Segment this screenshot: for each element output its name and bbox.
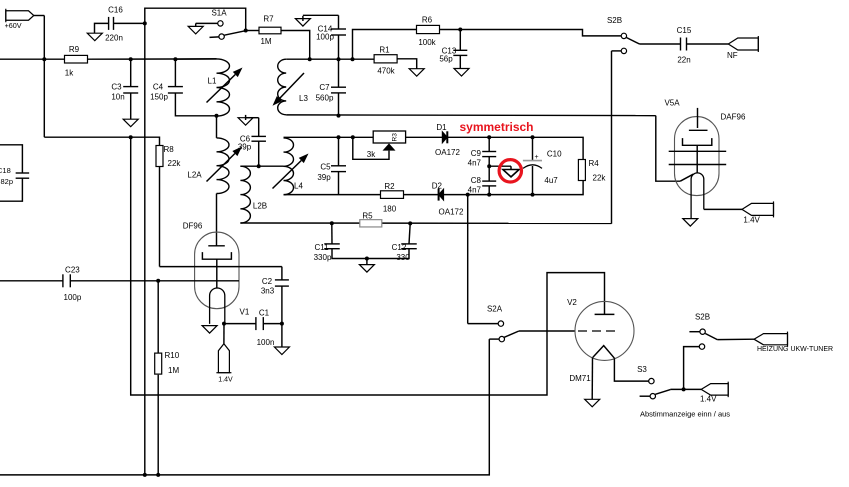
svg-text:C4: C4	[153, 83, 164, 92]
ground at S1A	[188, 26, 203, 34]
wire bottom rail	[0, 339, 489, 475]
node S1A R7 junction	[244, 29, 248, 33]
wire L3 bottom rail	[286, 114, 656, 117]
wire V5A filament to tag	[704, 208, 742, 210]
tag 1.4V at S3	[701, 384, 728, 396]
wire R10 to bottom rail	[157, 375, 159, 475]
inductor L1	[217, 59, 230, 116]
node C3 top	[129, 57, 133, 61]
svg-text:L1: L1	[208, 77, 217, 86]
node C6 tap junction	[257, 164, 261, 168]
svg-text:C5: C5	[320, 163, 331, 172]
svg-text:R4: R4	[589, 159, 600, 168]
wire L3 top to node	[286, 58, 310, 60]
wiper arrow of R3	[383, 143, 396, 150]
capacitor C9	[482, 151, 496, 153]
ground below C11 C12	[359, 265, 374, 273]
svg-text:V2: V2	[567, 298, 577, 307]
svg-text:56p: 56p	[439, 55, 453, 64]
svg-text:C2: C2	[262, 277, 273, 286]
wire C10 bottom stem	[532, 166, 534, 195]
node D2 S2A junction	[466, 193, 470, 197]
wire S2B upper stub	[689, 331, 700, 333]
wire C11 bottom stem	[332, 249, 367, 259]
node C7 bottom	[337, 114, 341, 118]
potentiometer R3 3k	[373, 131, 405, 143]
capacitor C5	[331, 165, 346, 167]
inductor L4	[284, 138, 294, 195]
capacitor C15	[680, 38, 682, 51]
node C11 junction	[330, 221, 334, 225]
wire symmetric rail to V5A diode	[656, 116, 680, 182]
wire C2 bottom stem	[281, 286, 283, 324]
resistor R7	[259, 27, 281, 34]
ground below C13	[454, 69, 469, 77]
tube V1 DF96 envelope	[195, 232, 239, 309]
diode D2 OA172	[439, 189, 444, 200]
wire C8 top stem	[488, 166, 490, 181]
svg-text:3n3: 3n3	[261, 287, 275, 296]
wire bus to V2 anode	[131, 137, 605, 395]
node bus junction at R8 feed	[129, 135, 133, 139]
wire D1 to C9 node	[447, 136, 489, 138]
wire C23 to grid of V1	[70, 280, 239, 282]
wire L4 top rail	[284, 136, 374, 138]
node C13 junction	[458, 28, 462, 32]
svg-text:39p: 39p	[317, 173, 331, 182]
svg-text:3k: 3k	[367, 150, 376, 159]
svg-text:R9: R9	[69, 45, 80, 54]
svg-text:C1: C1	[259, 309, 270, 318]
center lead of V1	[216, 259, 218, 288]
wire C6 bottom stem	[258, 141, 260, 166]
red annotation circle	[499, 160, 521, 182]
svg-text:22n: 22n	[677, 56, 690, 65]
wire S2B lever to C15	[640, 43, 681, 45]
svg-text:R6: R6	[422, 16, 433, 25]
grid dashed of V2	[578, 330, 616, 332]
ground below C3	[123, 119, 138, 127]
wire C7 bottom stem	[338, 93, 340, 116]
svg-text:HEIZUNG UKW-TUNER: HEIZUNG UKW-TUNER	[757, 346, 833, 353]
wire C9 bottom stem	[488, 157, 490, 167]
wire R1 right to ground	[397, 59, 417, 69]
inductor L2B	[240, 166, 250, 223]
svg-text:1k: 1k	[65, 69, 74, 78]
symmetric test point symbol	[503, 170, 519, 177]
inductor L3	[278, 59, 287, 115]
anode wire through V1	[160, 266, 282, 268]
svg-text:C12: C12	[392, 243, 407, 252]
svg-text:22k: 22k	[593, 174, 607, 183]
wire S2A lever to V2 grid	[519, 330, 575, 332]
wire C4 node to L1 top	[175, 58, 216, 60]
wire C5 top stem	[338, 137, 340, 166]
svg-text:C8: C8	[471, 176, 482, 185]
wire R8 to anode line	[159, 167, 161, 267]
capacitor C13	[453, 49, 467, 51]
svg-text:DM71: DM71	[569, 374, 591, 383]
svg-text:+60V: +60V	[5, 21, 22, 30]
tag NF	[728, 38, 758, 50]
capacitor C14	[331, 28, 346, 30]
svg-text:V5A: V5A	[664, 99, 680, 108]
wire S2A feed drop	[467, 195, 469, 324]
wire L1 bottom to L2A top	[216, 116, 218, 138]
wire C3 bottom stem	[130, 93, 132, 119]
wire R10 line	[157, 281, 159, 353]
wire R6 drop	[353, 30, 417, 60]
svg-text:C10: C10	[547, 150, 562, 159]
svg-text:4n7: 4n7	[468, 159, 482, 168]
svg-text:10n: 10n	[111, 93, 124, 102]
capacitor C10 electrolytic	[523, 160, 542, 162]
svg-text:22k: 22k	[168, 159, 182, 168]
svg-text:39p: 39p	[238, 143, 252, 152]
wire R3 to D1	[406, 136, 443, 138]
wire R8 feed	[44, 137, 159, 145]
grid line 2 of V5A	[669, 164, 727, 166]
wire left edge to C23	[0, 280, 63, 282]
wire +60V tag to rail	[34, 15, 44, 17]
svg-text:150p: 150p	[150, 93, 168, 102]
resistor R6	[417, 25, 440, 33]
center lead of V5A	[696, 145, 698, 173]
resistor R5	[360, 220, 382, 227]
svg-text:NF: NF	[727, 51, 738, 60]
node symmetric test point	[487, 164, 491, 168]
ground to C6	[238, 118, 253, 126]
filament of V1	[210, 288, 225, 324]
arrow of variable L3	[279, 73, 304, 99]
svg-text:C3: C3	[111, 83, 122, 92]
wire C9 top stem	[488, 137, 490, 151]
tag 1.4V at V1	[218, 344, 229, 373]
svg-text:C11: C11	[314, 243, 329, 252]
tube V5A DAF96 envelope	[675, 117, 720, 196]
svg-text:C16: C16	[108, 6, 123, 15]
wire C2 top stem	[281, 267, 283, 280]
svg-text:L4: L4	[294, 182, 303, 191]
node +60V / R9 line junction	[42, 57, 46, 61]
svg-text:1.4V: 1.4V	[743, 215, 760, 224]
wire L2B top to L4 tap	[240, 165, 283, 167]
svg-text:L3: L3	[299, 94, 308, 103]
node L1 bottom	[215, 114, 219, 118]
node C10 top	[531, 135, 535, 139]
wire C5 bottom stem	[338, 172, 340, 195]
svg-text:S1A: S1A	[211, 9, 227, 18]
node C11 C12 ground junction	[365, 257, 369, 261]
inductor L2A	[217, 138, 230, 194]
wire C7 top stem	[338, 59, 340, 87]
wire C1 to C2 node	[263, 323, 282, 325]
svg-text:4u7: 4u7	[544, 176, 558, 185]
svg-text:C18: C18	[0, 166, 11, 175]
wire R9 to C4 node	[88, 58, 217, 60]
wire S3 lever to tag	[670, 388, 701, 390]
wire S2A lower stub	[489, 338, 499, 340]
svg-text:C23: C23	[65, 266, 80, 275]
capacitor C3	[123, 86, 138, 88]
svg-text:S3: S3	[637, 365, 647, 374]
capacitor C6	[251, 135, 266, 137]
svg-text:560p: 560p	[316, 94, 334, 103]
screen bracket of V5A	[683, 138, 712, 145]
svg-text:330: 330	[396, 253, 410, 262]
grid bar g1 of V1	[208, 245, 225, 247]
ground below V2	[585, 399, 600, 407]
wire ground stem	[366, 259, 368, 265]
resistor R2	[381, 191, 404, 199]
svg-text:L2B: L2B	[253, 202, 267, 211]
capacitor C23	[62, 274, 64, 287]
svg-text:100n: 100n	[257, 338, 275, 347]
wire R3 wiper return	[353, 137, 389, 159]
wire V2 filament left leg	[591, 357, 593, 399]
capacitor C7	[331, 86, 346, 88]
node C8 bottom	[487, 193, 491, 197]
svg-text:DAF96: DAF96	[721, 113, 746, 122]
wire C10 top stem	[532, 137, 534, 160]
svg-text:470k: 470k	[377, 67, 395, 76]
wire S1A node to R7	[246, 30, 259, 32]
svg-text:symmetrisch: symmetrisch	[459, 120, 533, 134]
diode plate of V5A	[680, 174, 693, 181]
node R10 grid junction	[156, 279, 160, 283]
svg-text:DF96: DF96	[183, 222, 203, 231]
capacitor C18 with side bracket	[16, 172, 30, 174]
wire S2B lever to tag	[717, 338, 754, 340]
wire C16 left to ground	[95, 23, 109, 33]
ground below C1 C2	[274, 347, 289, 355]
filament of V5A	[691, 173, 704, 219]
wire bus top to S1A corner	[145, 8, 246, 30]
svg-text:C15: C15	[677, 26, 692, 35]
node V1 filament junction	[222, 322, 226, 326]
node C5 top	[337, 135, 341, 139]
wire C13 to ground	[459, 55, 461, 68]
svg-text:D2: D2	[432, 181, 443, 190]
arrow of variable L4	[273, 161, 302, 189]
resistor R10	[155, 353, 162, 374]
wire junction to ground	[281, 324, 283, 347]
wire C12 top stem	[409, 223, 410, 244]
ground below V1 filament	[202, 326, 217, 334]
capacitor C12	[401, 243, 417, 245]
svg-text:100p: 100p	[64, 293, 82, 302]
grid line 1 of V5A	[669, 150, 727, 152]
screen bracket of V1	[202, 252, 231, 259]
wire left edge to R9	[0, 58, 65, 60]
svg-text:R7: R7	[263, 15, 274, 24]
svg-text:OA172: OA172	[439, 208, 464, 217]
wire C12 bottom stem	[367, 249, 409, 259]
svg-text:1.4V: 1.4V	[700, 395, 717, 404]
wire S2B heater drop	[684, 347, 700, 390]
grid bar g1 of V5A	[689, 129, 708, 131]
wire S2B lower drop	[611, 51, 613, 224]
wire 1.4V drop	[223, 324, 225, 344]
node bus bottom rail	[143, 473, 147, 477]
svg-text:S2A: S2A	[487, 305, 503, 314]
capacitor C8	[482, 180, 496, 182]
svg-text:C7: C7	[319, 83, 330, 92]
capacitor C16	[108, 17, 110, 30]
arrow of variable L1	[207, 75, 236, 103]
wire C14 top stem	[338, 15, 340, 29]
filament of V2	[593, 346, 615, 359]
diode D1 OA172	[442, 132, 447, 143]
node R6 drop junction	[351, 57, 355, 61]
svg-text:Abstimmanzeige einn / aus: Abstimmanzeige einn / aus	[640, 409, 730, 418]
wire L2B bottom rail	[240, 222, 611, 224]
node C16 bus junction	[143, 21, 147, 25]
wire C13 stem	[459, 30, 461, 51]
svg-text:R8: R8	[164, 145, 175, 154]
wire C16 right to bus	[114, 22, 145, 24]
wire +60V vertical rail	[43, 16, 45, 138]
resistor R4	[578, 160, 585, 181]
tube V2 DM71 envelope	[575, 301, 634, 360]
wire bottom rail of detector	[284, 194, 533, 196]
node C14 C7 junction	[337, 57, 341, 61]
svg-text:L2A: L2A	[187, 171, 202, 180]
capacitor C4	[168, 86, 183, 88]
svg-text:+: +	[534, 154, 538, 161]
node C9 top	[487, 135, 491, 139]
wire C14 bottom stem	[338, 35, 340, 59]
wire test point stub	[489, 165, 511, 167]
svg-text:100p: 100p	[316, 33, 334, 42]
svg-text:180: 180	[383, 205, 397, 214]
wire C3 top stem	[130, 59, 132, 86]
wire S3 lower stub	[640, 395, 651, 397]
node S2B drop junction	[682, 387, 686, 391]
anode bar of V2	[595, 313, 615, 315]
svg-text:100k: 100k	[418, 38, 436, 47]
capacitor C11	[324, 243, 340, 245]
node C10 bottom	[531, 193, 535, 197]
wire C11 top stem	[331, 223, 333, 244]
wire filament to C1	[224, 323, 256, 325]
wire C15 to NF tag	[687, 43, 729, 45]
svg-text:R5: R5	[362, 212, 373, 221]
svg-text:OA172: OA172	[435, 148, 460, 157]
svg-text:4n7: 4n7	[468, 186, 482, 195]
+60V supply tag	[6, 11, 34, 21]
ground below R1	[409, 69, 424, 77]
resistor R1	[374, 55, 397, 63]
svg-text:330p: 330p	[314, 253, 332, 262]
resistor R9	[65, 55, 88, 63]
wire S2A feed to contact	[468, 323, 499, 325]
node C4 top	[173, 57, 177, 61]
svg-text:R1: R1	[379, 46, 390, 55]
tag 1.4V at V5A	[742, 203, 774, 215]
svg-text:1M: 1M	[168, 366, 179, 375]
svg-text:R3: R3	[392, 133, 399, 142]
node R7 drop junction	[308, 57, 312, 61]
wire R7 to drop	[281, 31, 310, 60]
tag HEIZUNG	[754, 334, 788, 345]
wire R6 to S2B	[440, 30, 622, 36]
ground at C16	[87, 33, 102, 41]
resistor R8	[156, 146, 163, 167]
node C12 junction	[408, 221, 412, 225]
svg-text:S2B: S2B	[695, 313, 710, 322]
svg-text:C9: C9	[471, 149, 482, 158]
node C1 C2 junction	[280, 322, 284, 326]
wire C4 top stem	[174, 59, 176, 86]
wire C8 bottom stem	[488, 186, 490, 195]
svg-text:D1: D1	[436, 123, 447, 132]
capacitor C1	[255, 317, 257, 330]
wire S2B lower stub	[612, 50, 622, 52]
wire C6 top stem	[258, 118, 260, 137]
node R10 bottom rail	[156, 473, 160, 477]
arrow of variable L2A	[207, 154, 235, 182]
svg-text:1M: 1M	[260, 37, 271, 46]
svg-text:1.4V: 1.4V	[218, 377, 233, 384]
wire top rail to R4	[489, 137, 583, 159]
capacitor C2	[275, 279, 289, 281]
svg-text:220n: 220n	[105, 34, 123, 43]
wire R4 bottom	[533, 181, 584, 195]
ground below V5A	[683, 219, 698, 227]
wire C4 bottom stem	[175, 93, 216, 116]
wire S1A upper to ground	[196, 22, 218, 24]
svg-text:82p: 82p	[1, 177, 14, 186]
ground to C14	[295, 19, 310, 27]
top lead of V5A	[697, 108, 699, 128]
svg-text:R10: R10	[165, 351, 180, 360]
wire V2 filament right leg	[614, 358, 648, 381]
wire long bus x145 down	[144, 23, 146, 475]
svg-text:V1: V1	[240, 308, 250, 317]
wire L2A bottom to V1 grid	[216, 194, 218, 246]
wire L3 node run	[310, 58, 374, 60]
svg-text:R2: R2	[384, 182, 395, 191]
svg-text:S2B: S2B	[607, 16, 622, 25]
node wiper junction	[351, 135, 355, 139]
